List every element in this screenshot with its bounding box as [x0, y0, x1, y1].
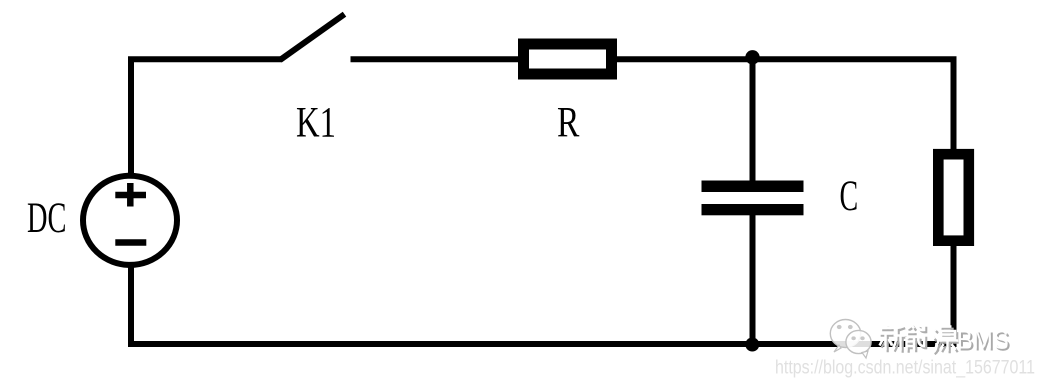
- svg-text:DC: DC: [27, 194, 66, 241]
- watermark text: XinNengYuan pseudo glyphs (gray shadow layer): [881, 327, 961, 355]
- wire: bottom loop (left vertical below source, bottom rail, right vertical below load): [131, 245, 954, 344]
- svg-text:BMS: BMS: [957, 325, 1009, 355]
- node: top junction: [745, 50, 759, 64]
- wire: resistor R to top-right corner, down to load resistor: [616, 59, 954, 150]
- svg-text:C: C: [840, 172, 859, 219]
- wire: top junction down to capacitor top plate: [750, 56, 756, 181]
- wire: switch right contact to resistor R: [351, 56, 520, 62]
- capacitor C top plate: [702, 181, 804, 193]
- resistor R2 (load): [938, 154, 969, 241]
- resistor R: [524, 44, 612, 74]
- watermark text: XinNengYuan pseudo glyphs (white layer): [879, 325, 959, 353]
- voltage source DC circle: [83, 176, 177, 265]
- svg-text:R: R: [557, 100, 580, 147]
- capacitor C bottom plate: [702, 204, 804, 215]
- wire: left vertical + top segment to switch hinge: [131, 59, 282, 175]
- node: bottom junction: [745, 338, 759, 352]
- voltage source plus sign: [115, 183, 146, 207]
- wire: capacitor bottom plate down to bottom junction: [750, 215, 756, 344]
- svg-text:K1: K1: [296, 99, 336, 146]
- svg-text:https://blog.csdn.net/sinat_15: https://blog.csdn.net/sinat_15677011: [775, 358, 1035, 379]
- switch K1 blade: [280, 14, 345, 60]
- watermark icon: wechat bubbles: [830, 320, 871, 359]
- voltage source minus sign: [115, 239, 146, 246]
